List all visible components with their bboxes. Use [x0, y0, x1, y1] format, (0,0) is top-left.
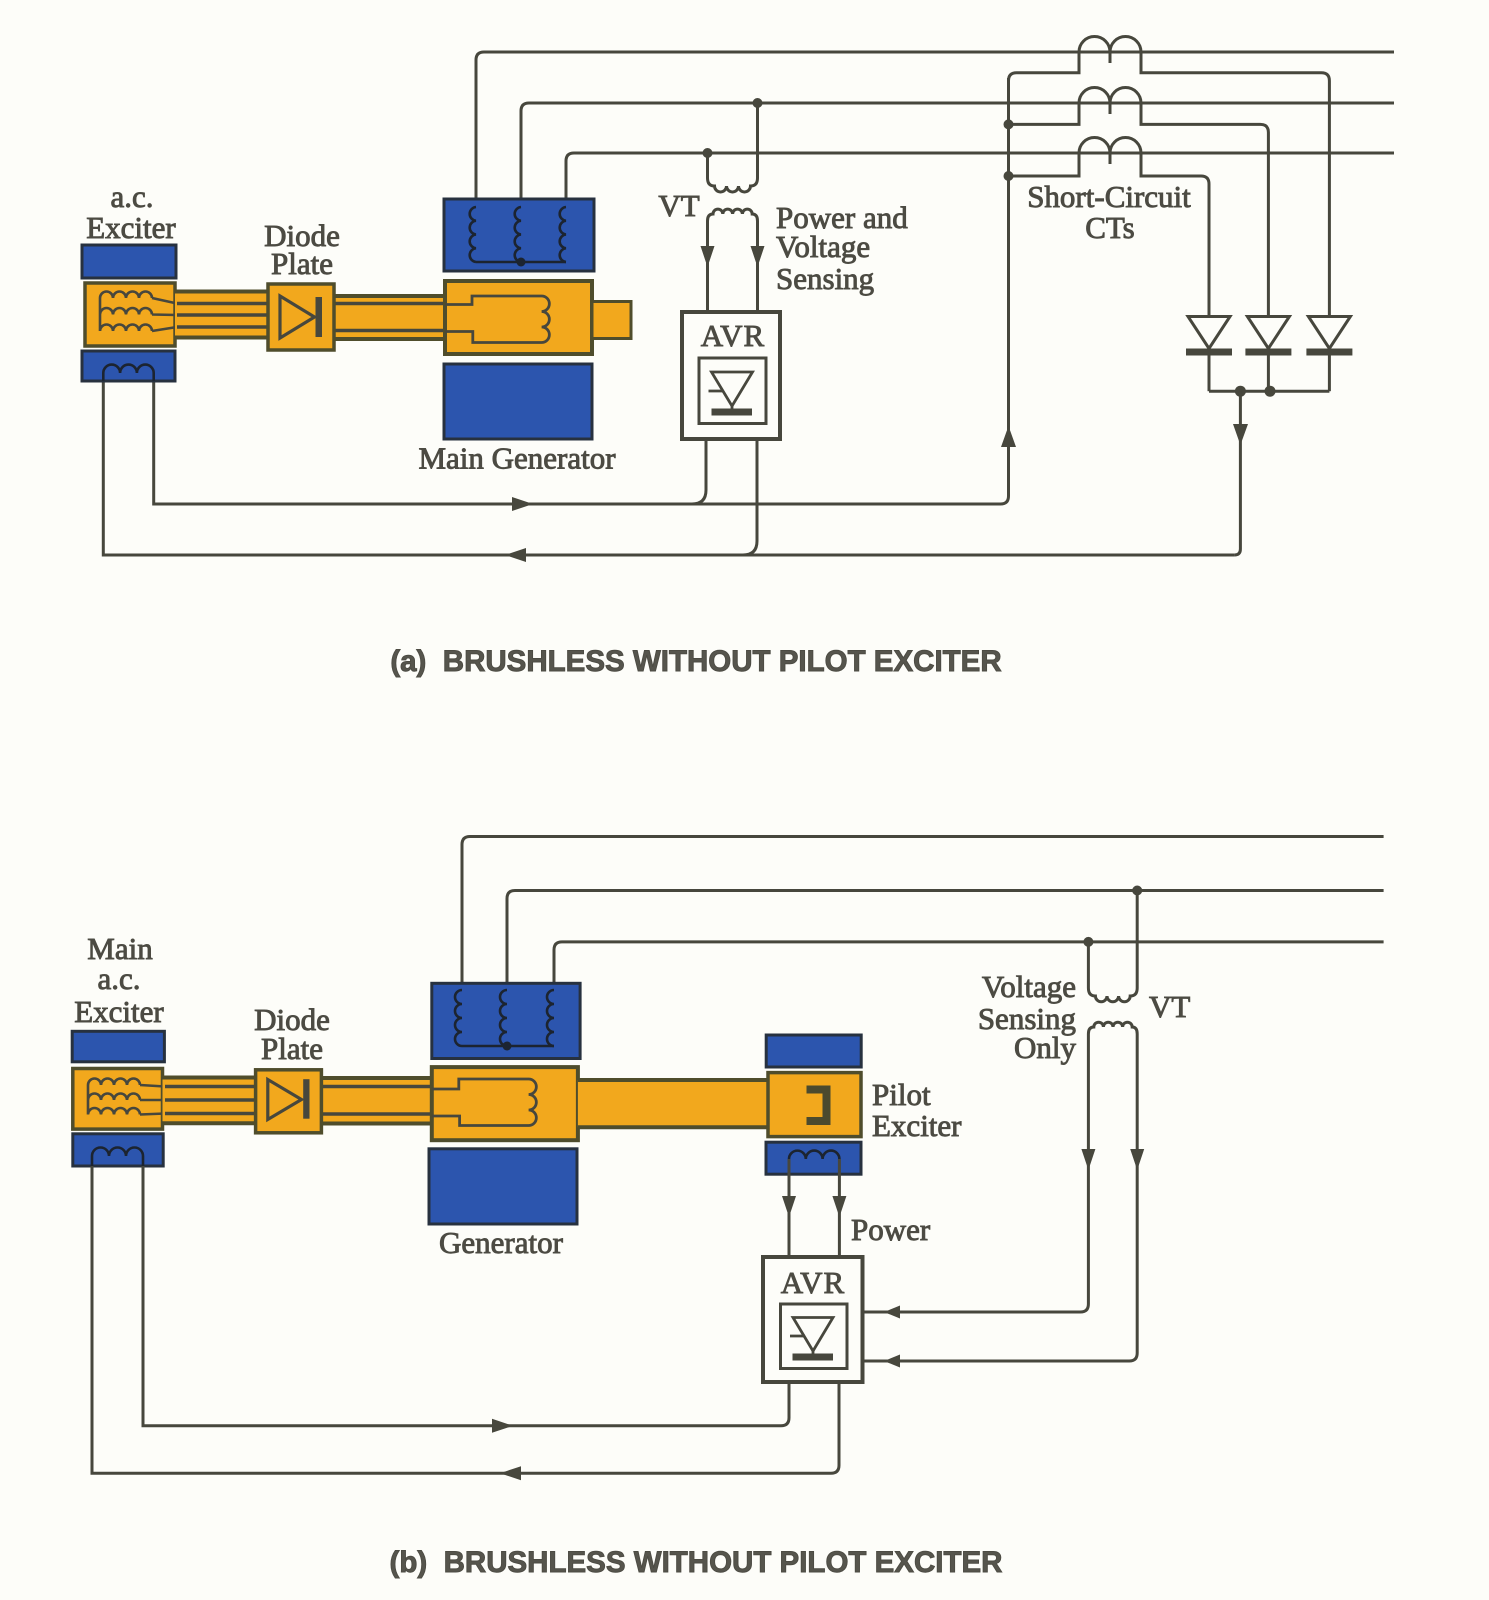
node: (b) VT tap on bus line 2: [1132, 886, 1142, 896]
node: CT3 secondary junction: [1004, 171, 1014, 181]
VT voltage transformer secondary (b): [1088, 1022, 1137, 1353]
arrowhead: left arrow on (b) lower return line: [500, 1466, 521, 1480]
wire: VT sensing line into AVR upper input: [864, 1304, 1088, 1312]
wire: CT2 secondary loop: [1009, 103, 1269, 317]
svg-text:VT: VT: [1149, 989, 1190, 1024]
a.c. exciter armature three-phase windings: [100, 292, 177, 331]
node: VT tap on bus line 2: [753, 98, 763, 108]
arrowhead: left arrow into AVR upper input: [884, 1306, 900, 1319]
wire: DC field conductors in shaft: [322, 304, 445, 331]
CT3 short-circuit current transformer on bus line 3: [1079, 138, 1141, 165]
pilot exciter magnet symbol: [807, 1090, 827, 1122]
main generator field pole block (bottom): [444, 364, 592, 439]
arrowhead: down arrow on VT secondary left lead: [701, 246, 715, 267]
node: rail junction at output: [1235, 386, 1246, 397]
arrowhead: right arrow on (b) upper feedback line: [492, 1419, 513, 1433]
CT1 short-circuit current transformer on bus line 1: [1079, 37, 1141, 64]
svg-text:Exciter: Exciter: [86, 210, 176, 245]
node: stator neutral point: [517, 258, 526, 267]
svg-text:(b) BRUSHLESS WITHOUT PILOT E: (b) BRUSHLESS WITHOUT PILOT EXCITER: [390, 1546, 1003, 1579]
a.c. exciter field block (bottom): [82, 351, 175, 381]
wire: (b) upper feedback line exciter field to AVR output left: [143, 1166, 789, 1426]
svg-text:VT: VT: [658, 188, 699, 223]
VT voltage transformer primary: [708, 103, 758, 192]
node: (b) VT tap on bus line 3: [1083, 937, 1093, 947]
(b) exciter field winding: [92, 1148, 143, 1167]
arrowhead: left arrow into AVR lower input: [884, 1355, 900, 1368]
svg-text:Exciter: Exciter: [872, 1108, 962, 1143]
main generator field winding: [445, 296, 549, 343]
node: (b) stator neutral point: [503, 1042, 512, 1051]
wire: CT1 secondary loop: [1009, 52, 1330, 317]
(b) shaft section: generator rotor to pilot exciter: [578, 1080, 768, 1127]
(b) exciter stator block (top): [72, 1031, 164, 1062]
wire: AVR output (left) to exciter field, with curve join: [692, 439, 706, 504]
svg-text:CTs: CTs: [1085, 210, 1135, 245]
a.c. exciter armature (yellow rotor box): [85, 283, 175, 346]
wire: phase lead 1 from main generator stator to bus line 1: [476, 52, 1394, 209]
(b) exciter armature windings: [88, 1079, 165, 1115]
(b) exciter armature (yellow rotor box): [73, 1069, 163, 1130]
wire: common CT secondary return (vertical bus to AVR power line): [1001, 78, 1009, 504]
node: VT tap on bus line 3: [703, 148, 713, 158]
wire: (b) three-phase conductors in shaft: [165, 1087, 268, 1114]
svg-text:Main Generator: Main Generator: [418, 441, 616, 476]
svg-text:Sensing: Sensing: [776, 261, 874, 296]
VT voltage transformer secondary: [708, 209, 758, 311]
arrowhead: right arrow on upper feedback line: [512, 497, 533, 511]
svg-text:Plate: Plate: [261, 1031, 323, 1066]
arrowhead: down arrow on pilot left lead: [782, 1196, 796, 1217]
wire: (b) phase lead 2 from generator stator to bus line 2: [507, 891, 1384, 993]
shaft stub right of rotor: [592, 302, 631, 339]
diode plate box: [268, 284, 334, 350]
wire: upper feedback line from exciter field lead to CT return: [154, 378, 1001, 504]
node: rail junction under D2: [1265, 386, 1276, 397]
svg-text:a.c.: a.c.: [97, 961, 140, 996]
arrowhead: left arrow on lower return line: [505, 548, 526, 562]
SCR diode D3 (field-discharge rectifier): [1308, 317, 1350, 349]
shaft section: exciter to diode plate: [175, 292, 270, 338]
svg-text:AVR: AVR: [701, 318, 765, 353]
arrowhead: down arrow on VT secondary right lead (b): [1130, 1149, 1144, 1170]
(b) shaft section: exciter to diode plate: [163, 1078, 258, 1124]
main generator stator windings: [470, 207, 476, 262]
SCR symbol inside AVR (b): [793, 1318, 833, 1352]
op-amp U2: AVR automatic voltage regulator box (b): [763, 1257, 863, 1382]
svg-text:Pilot: Pilot: [872, 1077, 931, 1112]
wire: CT3 secondary loop: [1009, 153, 1210, 317]
CT2 short-circuit current transformer on bus line 2: [1079, 88, 1141, 115]
node: CT2 secondary junction: [1004, 119, 1014, 129]
(b) diode symbol on plate: [268, 1080, 302, 1120]
arrowhead: down arrow on VT secondary left lead (b): [1081, 1149, 1095, 1170]
main generator rotor (yellow): [445, 281, 592, 354]
svg-text:a.c.: a.c.: [110, 179, 153, 214]
pilot exciter stator block (top): [766, 1035, 861, 1067]
wire: three-phase conductors in shaft: [177, 304, 280, 328]
VT voltage transformer primary (b): [1088, 891, 1137, 1002]
arrowhead: down arrow on pilot right lead: [832, 1196, 846, 1217]
pilot exciter rotor (yellow box): [768, 1073, 861, 1137]
wire: SCR cathode rail: [1209, 390, 1329, 393]
(b) diode plate box: [256, 1070, 322, 1133]
SCR diode D2 (field-discharge rectifier): [1247, 317, 1289, 349]
svg-text:Voltage: Voltage: [776, 229, 870, 264]
a.c. exciter field winding: [103, 365, 153, 381]
wire: (b) phase lead 1 from generator stator to bus line 1: [462, 837, 1384, 993]
(b) generator field pole block (bottom): [429, 1149, 577, 1224]
svg-text:(a) BRUSHLESS WITHOUT PILOT E: (a) BRUSHLESS WITHOUT PILOT EXCITER: [390, 645, 1001, 678]
arrowhead: down arrow on VT secondary right lead: [751, 246, 765, 267]
SCR diode D1 (field-discharge rectifier): [1188, 317, 1230, 349]
wire: phase lead 2 from main generator stator to bus line 2: [521, 103, 1394, 209]
svg-text:Only: Only: [1014, 1030, 1077, 1065]
wire: SCR output down to exciter field return: [1234, 391, 1240, 555]
wire: lower return line from exciter field lead to SCR output: [103, 378, 1234, 555]
arrowhead: up arrow on CT return line: [1001, 426, 1016, 447]
SCR symbol inside AVR: [712, 372, 753, 406]
(b) generator stator block: [432, 983, 580, 1058]
shaft section: diode plate to main rotor: [332, 296, 445, 339]
wire: (b) phase lead 3 from generator stator to bus line 3: [554, 942, 1384, 992]
(b) generator stator windings: [455, 990, 462, 1046]
wire: (b) lower return line exciter field to AVR output right: [92, 1166, 839, 1473]
pilot exciter field block (bottom): [766, 1142, 861, 1174]
(b) generator rotor (yellow): [432, 1067, 578, 1140]
(b) generator field winding: [432, 1079, 537, 1126]
pilot exciter output winding: [789, 1151, 839, 1159]
op-amp U1: AVR automatic voltage regulator box: [682, 312, 780, 439]
wire: phase lead 3 from main generator stator to bus line 3: [566, 153, 1394, 209]
svg-text:Exciter: Exciter: [74, 994, 164, 1029]
(b) exciter field block (bottom): [73, 1134, 163, 1166]
svg-text:AVR: AVR: [781, 1265, 845, 1300]
wire: VT sensing line into AVR lower input: [864, 1353, 1137, 1361]
svg-text:Generator: Generator: [439, 1225, 564, 1260]
svg-text:Power: Power: [851, 1212, 931, 1247]
svg-text:Plate: Plate: [271, 246, 333, 281]
a.c. exciter stator block (top): [82, 245, 176, 278]
arrowhead: down arrow on SCR output: [1233, 424, 1248, 445]
main generator stator block: [444, 199, 594, 271]
wire: AVR output (right) down with curve to lower return line: [743, 439, 757, 555]
diode symbol on plate: [280, 296, 315, 338]
svg-text:Short-Circuit: Short-Circuit: [1027, 179, 1191, 214]
(b) shaft section: diode plate to generator rotor: [320, 1078, 432, 1124]
wire: (b) DC field conductors in shaft: [310, 1087, 432, 1115]
svg-text:Voltage: Voltage: [982, 969, 1076, 1004]
wire: pilot output leads down to AVR: [789, 1159, 839, 1257]
